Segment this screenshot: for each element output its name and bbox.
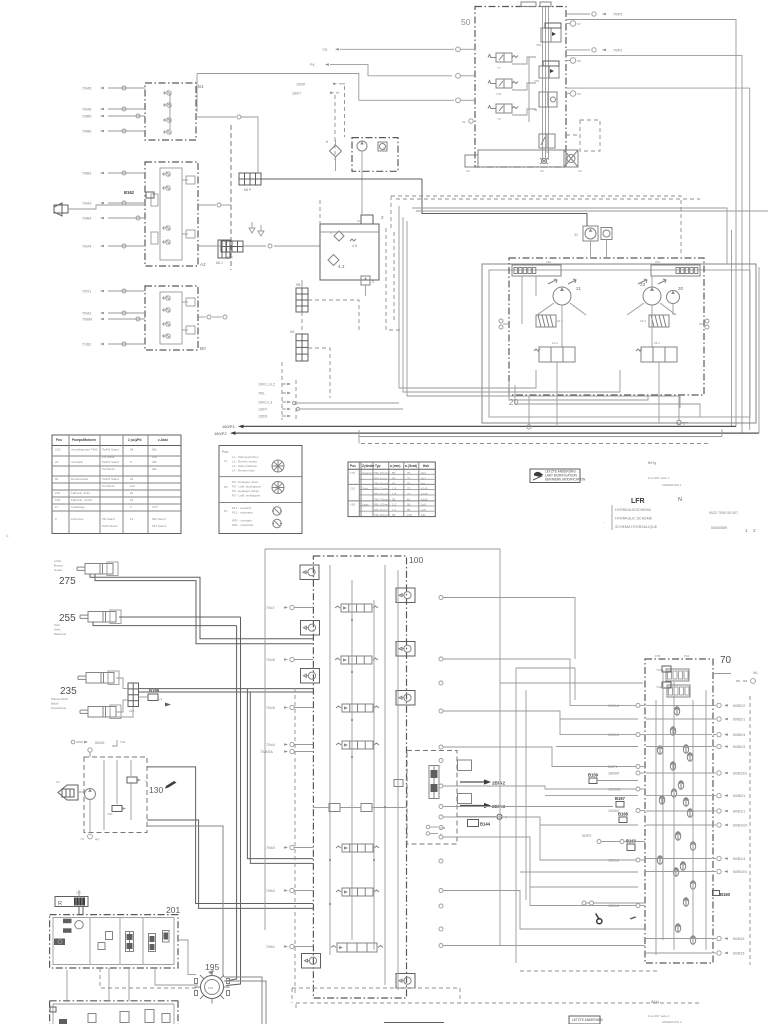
svg-text:70/A6: 70/A6 [82,108,91,112]
svg-text:75k 7(mm): 75k 7(mm) [374,482,388,486]
valve V51 [534,61,559,83]
valve 54 [534,92,557,112]
svg-text:P0 - Luftf. einklappen: P0 - Luftf. einklappen [232,494,261,498]
return filter R [55,891,88,908]
svg-text:180/MB: 180/MB [608,788,621,792]
riser to page2 left [398,206,400,213]
svg-text:LFR: LFR [631,498,645,505]
stub 19B [426,825,430,829]
wire 68T left [198,245,221,247]
control valve 21.2 [534,341,575,362]
svg-text:Pumpe/Motoren: Pumpe/Motoren [72,438,96,442]
svg-text:Fahrantr. links: Fahrantr. links [71,491,90,495]
wire 7/S [340,48,454,50]
lower dashed return line [358,430,360,444]
svg-text:P41: P41 [684,654,690,658]
svg-text:95k 9(dpt): 95k 9(dpt) [374,508,388,512]
sensor B168 [619,817,627,823]
junction circles bottom [293,402,296,405]
svg-text:P45: P45 [655,654,661,658]
valve Y59 [127,777,137,783]
swing valves right [458,760,472,771]
cylinder 235 upper (blade) [78,671,119,685]
svg-text:1.1: 1.1 [383,147,388,151]
gauge S8 [570,58,576,64]
svg-text:DERNIERE MODIFICATION: DERNIERE MODIFICATION [545,478,586,482]
svg-text:75k 9(5mm): 75k 9(5mm) [374,513,390,517]
svg-text:68 T: 68 T [226,256,234,260]
svg-text:9p2: 9p2 [421,477,426,481]
svg-text:60/B2/3: 60/B2/3 [733,745,745,749]
svg-text:100/1.1-L2: 100/1.1-L2 [258,382,275,386]
lower block 201b enclosure [50,1000,178,1002]
pack internal wires [89,800,91,834]
svg-text:15: 15 [56,780,60,784]
connector 68 P [239,173,261,192]
svg-text:B159: B159 [588,773,599,778]
svg-text:3: 3 [372,280,374,284]
pump group 20 enclosure [509,258,704,395]
cylinder table [348,462,435,517]
svg-text:L3 - Stiel einfahren: L3 - Stiel einfahren [232,464,258,468]
svg-text:Verstellb.: Verstellb. [71,460,84,464]
svg-text:YA62: YA62 [656,668,663,672]
svg-text:17: 17 [55,505,59,509]
svg-text:ers.: ers. [158,697,163,701]
svg-text:100/b4: 100/b4 [608,704,619,708]
pump group frame inner [489,270,750,417]
bus line A [399,213,536,388]
spool V20 [335,656,378,664]
dashed internal boundary [294,688,296,993]
svg-text:70/b1: 70/b1 [266,945,275,949]
svg-text:k2d5: k2d5 [421,492,428,496]
svg-text:24.3: 24.3 [640,319,646,323]
svg-text:ANDERUNG 1: ANDERUNG 1 [662,483,682,487]
svg-text:Hub: Hub [423,464,429,468]
svg-text:6: 6 [326,140,328,144]
svg-text:70/c5: 70/c5 [266,706,275,710]
tank unit 4.1 [320,215,384,280]
spool V20b [336,888,379,896]
bank70 internal row lines [646,704,712,706]
svg-text:100: 100 [409,555,423,565]
main vertical hose pair to pump [226,626,237,981]
svg-text:13: 13 [130,517,134,521]
svg-text:7,2: 7,2 [392,508,397,512]
svg-text:9B: 9B [296,283,301,287]
bank70 internal risers [655,700,657,955]
svg-text:Stiel: Stiel [362,487,368,491]
left ports of block 50 [456,47,461,52]
valve bank 70 enclosure [645,659,713,963]
revision stamp [530,469,586,483]
wire to right bus 2 [566,56,742,434]
bus line B [403,217,620,392]
swing spool vertical [429,766,439,799]
dashed link 9A region [281,362,283,420]
svg-text:P0 - Luftf. ausklappen: P0 - Luftf. ausklappen [232,485,262,489]
dashed sub frame above bottom [292,987,460,989]
sub enclosure swing [407,751,457,845]
svg-text:k9: k9 [130,491,134,495]
ports of B1 [82,86,145,134]
svg-text:Y24: Y24 [496,92,502,96]
201b left sensor [50,1007,56,1012]
svg-text:P0 - Ausleger heben: P0 - Ausleger heben [232,489,260,493]
svg-text:85: 85 [392,477,396,481]
wire 68T to tank line [243,245,266,247]
cylinder 235 lower [80,705,121,719]
svg-text:Pa/N Stand: Pa/N Stand [102,524,118,528]
svg-text:4.3: 4.3 [338,264,345,269]
sensor B162 [54,190,154,216]
sensor B199 [148,694,158,701]
svg-text:PR1 - vorwarts: PR1 - vorwarts [232,519,252,523]
svg-text:60/B10/2: 60/B10/2 [733,824,747,828]
valve block B1 [145,83,204,140]
svg-text:20: 20 [509,397,519,407]
gear pump 30 [667,286,684,304]
svg-text:68.1: 68.1 [216,261,223,265]
svg-text:180/b6: 180/b6 [608,859,619,863]
svg-text:190: 190 [55,491,60,495]
bottom-right revision stamp [569,1016,600,1024]
svg-text:S7: S7 [577,22,581,26]
svg-text:S2: S2 [578,169,582,173]
pilot valve bank100 L3 [301,669,320,684]
wire from gallery to feed pump [260,178,422,180]
svg-text:P0 - Ausleger unten: P0 - Ausleger unten [232,480,259,484]
svg-text:70/c7: 70/c7 [266,606,275,610]
svg-text:S4: S4 [466,169,470,173]
port 2B/A2 [460,781,484,783]
svg-text:L1 - Stiel ausrichten: L1 - Stiel ausrichten [232,455,259,459]
bank100 extra riser [397,570,399,990]
svg-text:95: 95 [392,498,396,502]
pump 195 [195,962,230,1004]
svg-text:100/b3: 100/b3 [608,733,619,737]
svg-text:HYDRAULIC SCHEME: HYDRAULIC SCHEME [615,517,653,521]
svg-text:Zylinder: Zylinder [362,464,375,468]
svg-text:95: 95 [407,482,411,486]
wires from pilot valves [512,57,536,64]
bank70 relief valves [674,707,679,715]
svg-text:Hg: Hg [95,837,99,841]
block S2 [564,150,582,173]
svg-text:24a: 24a [655,260,660,264]
svg-text:Latte: Latte [362,503,369,507]
svg-text:50/P1: 50/P1 [608,765,617,769]
svg-text:75: 75 [407,487,411,491]
spool V1 [126,932,134,952]
svg-text:94T Stand: 94T Stand [152,524,166,528]
parts list table [52,435,181,534]
wire above B1 [197,74,454,101]
svg-text:Pos.: Pos. [222,450,229,454]
svg-text:1,5: 1,5 [392,503,397,507]
power pack 130 enclosure [84,757,147,833]
svg-text:70/X1: 70/X1 [82,290,91,294]
svg-text:YA63: YA63 [656,685,663,689]
svg-text:4.5: 4.5 [352,244,357,248]
svg-text:23: 23 [640,282,646,287]
svg-text:Fahrantr. rechts: Fahrantr. rechts [71,498,93,502]
power unit 1.1 [352,138,398,172]
svg-text:95k 7 (mm): 95k 7 (mm) [374,487,389,491]
svg-text:a (Grad): a (Grad) [405,464,417,468]
spool V3 [163,931,170,943]
ports of B0 [82,289,145,347]
svg-text:Godet: Godet [54,568,62,572]
control valve 23.2 [636,341,677,362]
pilot valve bank100 R3 [396,691,415,706]
pilot valve bank100 R2 [396,642,415,657]
svg-text:R: R [58,901,62,907]
svg-text:160/P1: 160/P1 [222,424,235,429]
svg-text:Ausl.kpl: Ausl.kpl [362,471,373,475]
gray box mid [516,668,575,700]
block 50 bottom gallery [478,150,566,167]
svg-text:V51: V51 [534,79,540,83]
svg-text:70/A5: 70/A5 [82,87,91,91]
svg-text:B163: B163 [626,839,637,844]
valves small left [63,919,72,924]
svg-text:B0: B0 [200,346,206,351]
svg-text:Pa/Pd Stand: Pa/Pd Stand [102,460,119,464]
wire B0 right [198,316,206,318]
svg-text:90k: 90k [152,448,157,452]
svg-text:22: 22 [55,460,59,464]
svg-text:k9k: k9k [152,467,157,471]
201 internals wires [89,918,91,964]
svg-text:70/A2: 70/A2 [82,312,91,316]
svg-text:Luftmotor: Luftmotor [71,517,84,521]
servo 22.3 [536,315,563,327]
restrictor col [106,932,113,940]
svg-text:P4: P4 [310,63,314,67]
svg-text:210: 210 [350,487,355,491]
svg-text:YS: YS [80,837,84,841]
svg-text:84: 84 [130,448,134,452]
svg-text:1p5: 1p5 [421,503,426,507]
svg-text:130/T: 130/T [258,407,268,411]
svg-text:a (mm): a (mm) [390,464,400,468]
edit pencil icon [165,781,177,789]
top small valves row [329,804,340,812]
svg-text:7/S: 7/S [322,48,328,52]
gray frame around bank100 [265,549,500,945]
sensor B160 [713,891,720,896]
svg-text:60/B15/1: 60/B15/1 [733,772,747,776]
svg-text:60/B19/1: 60/B19/1 [733,870,747,874]
pilot valve bank100 R4 [396,974,415,989]
201b risers [66,970,68,1002]
svg-text:z-Abst: z-Abst [158,438,169,442]
port T1 [457,816,496,818]
svg-text:B1: B1 [198,84,204,89]
svg-text:235: 235 [60,686,77,697]
drain ports [527,425,531,429]
svg-text:PL: PL [224,509,228,513]
pump 195 stubs [195,979,198,984]
terminal 68.1 [218,240,230,258]
pilot valve bank100 L1 [300,565,319,580]
pilot valve bank100 L4 [302,954,321,969]
dashed pilot box right of 50 [580,120,600,151]
wires 9B [301,280,303,288]
svg-text:1.: 1. [6,534,9,538]
block 50 internal bus [545,7,547,160]
svg-text:275: 275 [59,576,76,587]
bank100 internal risers [329,565,331,955]
svg-text:70: 70 [407,477,411,481]
svg-text:70/b3: 70/b3 [266,846,275,850]
svg-text:9pl: 9pl [421,482,425,486]
svg-text:B168: B168 [618,812,629,817]
mini relief pair [394,780,403,787]
svg-text:1: 1 [505,816,507,820]
valve block A2 [145,162,206,267]
sensor B159 [589,778,597,784]
wires from R [78,907,80,915]
201b inner frame [53,1003,174,1005]
svg-text:2,5T: 2,5T [152,505,158,509]
svg-text:HYDRAULIKSCHEMA: HYDRAULIKSCHEMA [615,508,652,512]
filter 6 [330,145,342,157]
servo 24.3 [640,315,669,327]
svg-text:M4: M4 [357,219,361,223]
port row 180/b5 circles [582,901,586,905]
bank70 right ports [713,704,716,706]
svg-text:70/b2: 70/b2 [266,889,275,893]
bus line D [412,208,727,264]
solenoid valve Y24 [488,79,518,96]
bottom partial content [384,1022,444,1024]
wire rows into bank70 [560,718,638,720]
svg-text:70/B4: 70/B4 [82,217,91,221]
svg-text:75k 15(mm): 75k 15(mm) [374,471,390,475]
spool V28 [336,704,379,712]
port 70/P1 [566,49,590,51]
svg-text:60/B0/1: 60/B0/1 [733,794,745,798]
pack outputs right [147,767,313,904]
svg-text:Y7: Y7 [497,66,501,70]
svg-text:60/B15: 60/B15 [733,952,744,956]
bus line E [416,210,768,212]
svg-text:Balancier: Balancier [54,632,67,636]
svg-text:k5: k5 [407,498,411,502]
svg-text:195: 195 [208,986,213,990]
svg-text:k2d5: k2d5 [421,498,428,502]
svg-text:94: 94 [130,477,134,481]
svg-text:255: 255 [59,613,76,624]
bank70 top valve row 2 [656,682,690,697]
201 to pump line [155,968,198,985]
pencil mark right [630,916,637,919]
dashed enclosure around power unit [386,228,403,330]
svg-text:90k Stand: 90k Stand [152,517,166,521]
line set middle [443,747,636,767]
gauge S7 [570,21,576,27]
cylinder 255 (stick) [80,610,121,624]
pump group frame outer [482,264,756,423]
port 70/P2 [566,13,590,15]
svg-text:9022 7090 00 007: 9022 7090 00 007 [709,511,738,515]
wire to right bus 1 [566,20,736,427]
svg-text:85: 85 [392,471,396,475]
valve bank 100 enclosure [313,556,406,998]
svg-text:40k: 40k [152,460,157,464]
svg-text:Pa/Pd Stand: Pa/Pd Stand [102,477,119,481]
svg-text:Stick: Stick [54,628,61,632]
svg-text:L4 - Drehen links: L4 - Drehen links [232,469,255,473]
cylinder 275 (bucket) [77,562,118,576]
svg-text:180/b5: 180/b5 [608,904,619,908]
svg-text:60/B2/1: 60/B2/1 [733,718,745,722]
wire P4 [330,65,452,76]
svg-text:Pendelbras: Pendelbras [51,706,67,710]
svg-text:S8: S8 [577,59,581,63]
svg-text:B162: B162 [124,190,135,195]
svg-text:2: 2 [753,528,756,533]
201 inner frame [53,918,174,965]
regulator 22a [512,260,561,276]
svg-text:195: 195 [55,498,60,502]
svg-text:N: N [678,497,682,503]
svg-text:30: 30 [678,286,684,291]
svg-text:23.2: 23.2 [654,341,660,345]
inner bus steps [509,381,648,400]
svg-text:70/A3: 70/A3 [82,202,91,206]
svg-text:95: 95 [407,508,411,512]
valve Y60 [112,806,122,812]
solenoid valve Y3 [488,104,518,121]
sensor B144 [468,820,479,827]
svg-text:70/B/5A: 70/B/5A [260,750,273,754]
spool V-last big [331,943,383,952]
svg-text:L1: L1 [224,459,228,463]
connector 9B [296,283,308,312]
svg-text:160/P2: 160/P2 [214,431,227,436]
svg-text:Blade: Blade [51,702,59,706]
svg-text:65: 65 [392,482,396,486]
dashed vertical right of 70 [749,696,751,965]
svg-text:L2 - Drehen rechts: L2 - Drehen rechts [232,460,257,464]
svg-text:100/1-L3: 100/1-L3 [258,400,272,404]
legend Pos box [219,446,302,534]
svg-text:54: 54 [534,108,538,112]
svg-text:95k (5mm): 95k (5mm) [374,492,388,496]
sensor B167 [616,802,624,808]
valve block B0 [145,286,206,351]
svg-text:60/B16: 60/B16 [733,937,744,941]
port 9A link [713,673,731,675]
port 50/A3 [88,748,92,752]
svg-text:V52: V52 [536,43,542,47]
connector 68 T [221,241,243,260]
gauge 201.1 [75,921,83,929]
svg-text:70/c4: 70/c4 [266,743,275,747]
svg-text:LETZTE ANDERUNG: LETZTE ANDERUNG [572,1018,603,1022]
svg-text:175: 175 [350,471,355,475]
filter 32 [601,228,612,240]
gauge S9 [570,91,576,97]
svg-text:1: 1 [745,528,748,533]
mouse cursor [595,913,600,920]
svg-text:70/B3: 70/B3 [82,172,91,176]
svg-text:70/P2: 70/P2 [613,13,622,17]
